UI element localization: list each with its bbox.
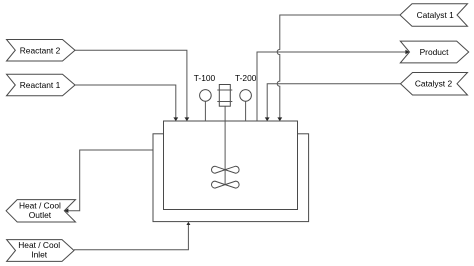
- instrument T-100 stem: [204, 101, 206, 121]
- agitator shaft: [224, 106, 226, 184]
- reactor vessel body: [164, 121, 298, 210]
- svg-text:Heat / Cool: Heat / Cool: [18, 240, 60, 250]
- label T-100: [194, 73, 216, 83]
- wire jacket to Heat / Cool Outlet tag: [64, 150, 153, 213]
- vessel jacket (outer shell): [153, 134, 309, 222]
- wire Heat / Cool Inlet to jacket: [74, 222, 190, 250]
- svg-text:T-200: T-200: [235, 73, 257, 83]
- off-page connector Catalyst 1: [400, 4, 468, 27]
- svg-text:Heat / Cool: Heat / Cool: [19, 200, 61, 210]
- off-page connector Heat / Cool Outlet: [6, 200, 75, 222]
- svg-text:Inlet: Inlet: [31, 250, 48, 260]
- svg-text:T-100: T-100: [194, 73, 216, 83]
- svg-text:Product: Product: [420, 47, 450, 57]
- svg-text:Outlet: Outlet: [29, 210, 52, 220]
- label T-200: [235, 73, 257, 83]
- svg-text:Catalyst 1: Catalyst 1: [417, 10, 455, 20]
- wire vessel to Product tag: [257, 50, 410, 121]
- instrument T-100 bubble: [200, 90, 212, 102]
- off-page connector Heat / Cool Inlet: [7, 240, 74, 262]
- wire Catalyst 2 to vessel: [265, 84, 401, 122]
- instrument T-200 bubble: [240, 90, 252, 102]
- off-page connector Catalyst 2: [401, 73, 468, 96]
- off-page connector Product: [400, 41, 468, 63]
- impeller blade pair 2: [212, 181, 240, 188]
- svg-text:Reactant 1: Reactant 1: [20, 80, 61, 90]
- wire Reactant 1 to vessel nozzle: [75, 85, 178, 121]
- wire Reactant 2 to vessel nozzle: [75, 50, 189, 121]
- off-page connector Reactant 1: [7, 74, 76, 96]
- impeller blade pair 1: [212, 166, 240, 173]
- svg-text:Reactant 2: Reactant 2: [20, 45, 61, 55]
- instrument T-200 stem: [245, 101, 247, 121]
- svg-text:Catalyst 2: Catalyst 2: [415, 79, 453, 89]
- agitator motor: [217, 85, 232, 107]
- off-page connector Reactant 2: [7, 40, 76, 62]
- wire Catalyst 1 to vessel (with line jumps): [277, 15, 400, 121]
